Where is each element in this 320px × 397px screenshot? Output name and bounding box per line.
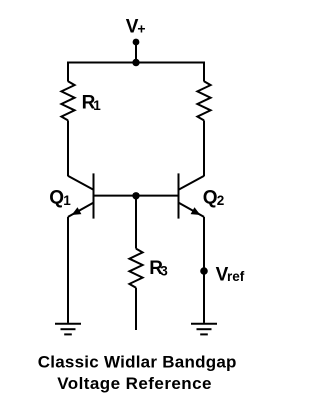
svg-text:1: 1 (63, 193, 71, 208)
svg-text:2: 2 (217, 193, 225, 208)
svg-text:+: + (137, 21, 145, 37)
wire R1 to Q1 collector (67, 120, 69, 176)
svg-text:Voltage Reference: Voltage Reference (57, 374, 212, 393)
label R1 (82, 92, 102, 113)
V+ terminal dot (133, 39, 140, 46)
junction dot base node (132, 192, 139, 199)
label R3 (149, 258, 168, 279)
wire base Q1 to Q2 (94, 195, 179, 197)
resistor R1 (61, 81, 74, 120)
svg-text:Classic Widlar Bandgap: Classic Widlar Bandgap (38, 353, 237, 372)
svg-text:ref: ref (227, 269, 245, 284)
junction dot top rail (132, 59, 139, 66)
resistor R2 (right branch) (197, 81, 210, 120)
svg-text:Q: Q (49, 187, 64, 208)
node Vref dot (200, 267, 208, 275)
transistor Q1 (68, 173, 94, 218)
wire Q1 emitter to ground (67, 217, 69, 323)
node V+ label (126, 16, 146, 37)
wire base node to R3 (135, 196, 137, 249)
ground left (55, 324, 81, 335)
transistor Q2 (179, 173, 205, 218)
label Q1 (49, 187, 71, 208)
svg-text:1: 1 (93, 98, 101, 113)
wire V+ stub (135, 42, 137, 63)
wire R2 to Q2 collector (203, 120, 205, 176)
wire R3 bottom (135, 288, 137, 330)
ground right (191, 324, 217, 335)
caption (38, 353, 237, 394)
wire Q2 emitter to ground (203, 217, 205, 323)
label Q2 (203, 187, 225, 208)
wire top rail (68, 63, 204, 82)
svg-text:3: 3 (160, 263, 168, 278)
label Vref (216, 265, 245, 286)
svg-text:Q: Q (203, 187, 218, 208)
resistor R3 (129, 249, 142, 288)
